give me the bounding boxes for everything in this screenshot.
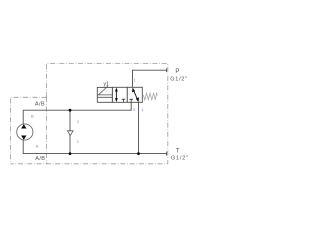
pump triangle up <box>21 124 26 128</box>
valve left square blocked port T symbol <box>122 99 126 102</box>
enclosure border shared edge <box>46 97 48 164</box>
svg-text:A/B: A/B <box>35 156 45 162</box>
svg-text:G1/2": G1/2" <box>170 77 188 83</box>
wire valve to T <box>138 102 140 153</box>
wire valve to P port <box>133 70 167 87</box>
svg-text:G1/2": G1/2" <box>171 156 189 162</box>
pump triangle down <box>21 136 26 140</box>
pump/motor circle <box>17 124 33 140</box>
wire A/B top line <box>23 102 131 124</box>
svg-text:T: T <box>176 149 180 155</box>
wire check valve branch <box>69 110 71 153</box>
junction dot A/B-check <box>69 109 72 112</box>
svg-text:B: B <box>31 113 34 118</box>
check valve open triangle <box>68 131 74 136</box>
valve right square diagonal flow path P-T <box>133 90 137 100</box>
valve body right square <box>127 87 142 102</box>
wire bottom T line <box>23 140 166 154</box>
solenoid box y1 <box>97 87 112 102</box>
svg-text:y1: y1 <box>104 81 110 87</box>
svg-text:P: P <box>175 69 179 75</box>
junction dot T-valve <box>137 152 140 155</box>
spring <box>143 93 157 100</box>
svg-text:A: A <box>36 143 39 148</box>
valve right square blocked port symbol (port 2) <box>129 99 133 102</box>
port tick T <box>166 152 168 156</box>
enclosure border left box (pump section) <box>11 97 47 164</box>
solenoid diagonal slash <box>98 86 108 95</box>
enclosure border right box (valve manifold) <box>11 64 168 164</box>
valve body left square <box>112 87 127 102</box>
svg-text:A/B: A/B <box>35 102 45 108</box>
port tick P <box>166 68 168 72</box>
junction dot T-check <box>69 152 72 155</box>
valve left square flow arrow <box>115 91 117 100</box>
